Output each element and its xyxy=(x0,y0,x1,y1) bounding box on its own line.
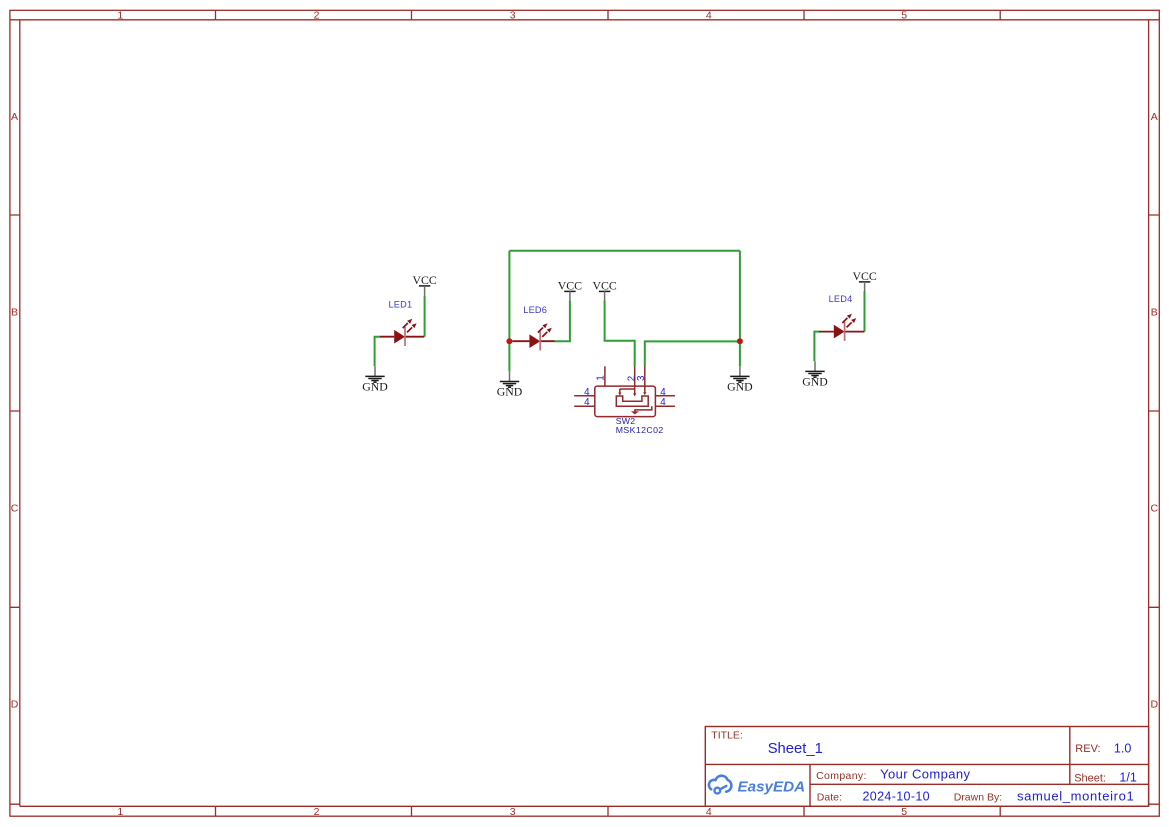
svg-text:D: D xyxy=(1151,699,1159,711)
svg-text:1: 1 xyxy=(117,10,123,22)
svg-text:A: A xyxy=(1151,111,1158,123)
switch body xyxy=(595,386,656,417)
wire left vertical (junction to top) xyxy=(508,251,510,372)
frame row letters left xyxy=(11,111,19,711)
svg-text:Drawn By:: Drawn By: xyxy=(954,791,1002,803)
LED LED6 xyxy=(512,323,554,350)
svg-text:VCC: VCC xyxy=(558,279,582,293)
svg-text:3: 3 xyxy=(510,10,516,22)
svg-text:GND: GND xyxy=(802,375,828,389)
svg-text:Company:: Company: xyxy=(816,770,867,782)
wire VCC to SW2 pin 2 xyxy=(605,301,635,367)
svg-text:1: 1 xyxy=(117,806,123,818)
svg-text:C: C xyxy=(11,503,19,515)
svg-text:4: 4 xyxy=(706,10,712,22)
right pin 4 leads xyxy=(655,396,675,407)
svg-text:EasyEDA: EasyEDA xyxy=(738,779,806,796)
frame column numbers bottom xyxy=(117,806,907,818)
svg-text:Sheet_1: Sheet_1 xyxy=(768,741,823,757)
svg-text:Your Company: Your Company xyxy=(880,766,970,781)
svg-text:GND: GND xyxy=(497,385,523,399)
svg-text:A: A xyxy=(11,111,18,123)
ground flag GND (LED1) xyxy=(362,366,388,393)
svg-text:2: 2 xyxy=(314,806,320,818)
svg-text:1/1: 1/1 xyxy=(1119,771,1136,785)
svg-text:Sheet:: Sheet: xyxy=(1074,773,1106,785)
svg-text:GND: GND xyxy=(727,380,753,394)
svg-text:4: 4 xyxy=(706,806,712,818)
svg-text:LED1: LED1 xyxy=(389,300,413,310)
pin 3 stub xyxy=(644,366,646,393)
LED LED4 xyxy=(819,314,864,341)
frame row letters right xyxy=(1151,111,1159,711)
internal link pin2 to left contact xyxy=(620,389,635,393)
title block xyxy=(705,727,1148,807)
junction right xyxy=(737,338,743,344)
ground flag GND (net SW) xyxy=(727,366,753,393)
left pin 4 leads xyxy=(574,396,595,407)
wire SW2 pin 3 to right junction xyxy=(645,341,740,366)
junction left xyxy=(506,338,512,344)
svg-text:LED4: LED4 xyxy=(829,294,853,304)
EasyEDA logo cloud xyxy=(709,776,732,794)
svg-text:2: 2 xyxy=(314,10,320,22)
frame column numbers top xyxy=(117,10,907,22)
common hook xyxy=(635,406,652,411)
ground flag GND (LED6) xyxy=(497,371,523,398)
wire net VCC top long xyxy=(509,250,740,252)
power flag VCC (LED4) xyxy=(852,269,876,292)
svg-text:1: 1 xyxy=(595,375,606,380)
svg-text:4: 4 xyxy=(660,397,666,408)
svg-text:samuel_monteiro1: samuel_monteiro1 xyxy=(1017,789,1134,804)
svg-text:5: 5 xyxy=(901,10,907,22)
wire LED4 anode to GND xyxy=(814,332,819,362)
svg-text:VCC: VCC xyxy=(852,269,876,283)
pin 1 stub xyxy=(604,366,606,386)
svg-text:TITLE:: TITLE: xyxy=(711,730,743,742)
power flag VCC (LED1) xyxy=(412,273,436,296)
svg-text:Date:: Date: xyxy=(817,791,842,803)
svg-text:VCC: VCC xyxy=(592,279,616,293)
svg-text:B: B xyxy=(11,307,18,319)
LED LED1 xyxy=(380,319,424,346)
svg-text:3: 3 xyxy=(510,806,516,818)
wire right vertical (junction to top) xyxy=(739,251,741,366)
pin 2 stub xyxy=(634,366,636,394)
wire LED1 anode to GND xyxy=(375,337,381,367)
svg-text:LED6: LED6 xyxy=(523,305,547,315)
svg-text:MSK12C02: MSK12C02 xyxy=(616,425,664,435)
wire LED4 cathode to VCC xyxy=(864,291,866,331)
ground flag GND (LED4) xyxy=(802,361,828,388)
wire LED1 cathode to VCC xyxy=(424,296,426,337)
svg-text:D: D xyxy=(11,699,19,711)
svg-text:4: 4 xyxy=(584,397,590,408)
svg-text:1.0: 1.0 xyxy=(1114,741,1131,755)
svg-text:5: 5 xyxy=(901,806,907,818)
wire LED6 cathode to VCC xyxy=(554,301,570,342)
svg-text:C: C xyxy=(1151,503,1159,515)
svg-text:GND: GND xyxy=(362,380,388,394)
power flag VCC (SW2) xyxy=(592,279,616,302)
svg-text:REV:: REV: xyxy=(1075,743,1100,755)
svg-text:VCC: VCC xyxy=(412,273,436,287)
svg-text:B: B xyxy=(1151,307,1158,319)
svg-text:4: 4 xyxy=(660,387,666,398)
svg-text:3: 3 xyxy=(636,375,647,381)
slider cup xyxy=(616,396,648,406)
power flag VCC (LED6) xyxy=(558,279,582,302)
switch SW2 xyxy=(574,366,675,416)
svg-text:2024-10-10: 2024-10-10 xyxy=(863,790,930,804)
switch contact arrows xyxy=(618,392,646,414)
